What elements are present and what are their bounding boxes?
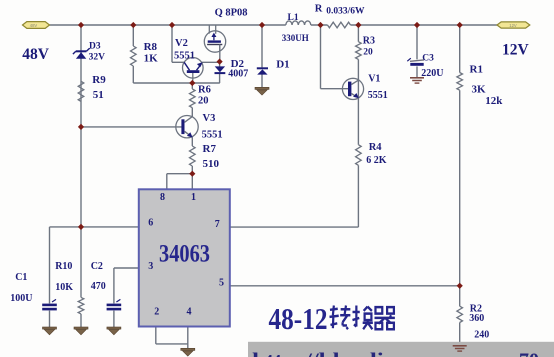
wire gate drop to node (219, 44, 221, 61)
svg-text:R: R (315, 3, 323, 14)
ground below C3 (410, 78, 424, 83)
svg-text:470: 470 (91, 281, 106, 292)
label V1 5551 (368, 90, 388, 101)
wire pin 7 line (230, 226, 359, 228)
label 10K (55, 282, 73, 293)
output terminal 12V (497, 22, 530, 28)
wire D2 connections (219, 62, 221, 83)
title char qi (375, 307, 395, 329)
wire V3 base line (81, 126, 182, 128)
transistor V1 (342, 78, 363, 99)
watermark text (252, 350, 539, 357)
svg-text:12k: 12k (485, 95, 503, 107)
svg-text:D3: D3 (89, 42, 101, 52)
svg-text:3K: 3K (472, 83, 487, 95)
wire V2 collector to rail (172, 25, 184, 62)
svg-text:8: 8 (160, 192, 165, 203)
label R (315, 3, 323, 14)
resistor R10 (78, 297, 84, 314)
wire pin 2 to ground link (156, 327, 188, 344)
wire pin 3 line to C2 (114, 268, 139, 327)
svg-text:510: 510 (203, 158, 220, 170)
wire D1 column (261, 25, 263, 87)
label 12V (502, 42, 530, 59)
label R6 (198, 84, 211, 95)
label D2 (231, 58, 245, 70)
svg-text:C2: C2 (91, 261, 103, 272)
svg-text:220U: 220U (421, 68, 443, 79)
svg-text:C1: C1 (15, 272, 27, 283)
resistor R3 (356, 42, 362, 60)
wire pin 4 to ground (187, 327, 189, 349)
label 0.033/6W (326, 7, 365, 17)
svg-text:R4: R4 (369, 142, 383, 153)
IC text 34063 (159, 241, 210, 268)
label V3 5551 (202, 129, 223, 140)
transistor V2 (183, 58, 204, 83)
svg-text:1: 1 (191, 192, 196, 203)
junction node gate/D2/V2-emitter (217, 59, 223, 65)
pin 7 (215, 219, 220, 230)
resistor R7 (190, 146, 196, 166)
wire R7 to pins 8/1 node (191, 166, 193, 174)
svg-text:5: 5 (219, 277, 224, 288)
svg-text:34063: 34063 (159, 241, 210, 268)
watermark bar (248, 342, 554, 357)
svg-text:R6: R6 (198, 84, 211, 95)
svg-text:12V: 12V (502, 42, 530, 59)
ground below R2 (453, 346, 467, 351)
label V2 5551 (174, 50, 195, 61)
svg-text:240: 240 (474, 330, 489, 341)
title char huan (352, 306, 372, 330)
label Q 8P08 (215, 7, 248, 18)
svg-text:V3: V3 (203, 113, 216, 124)
label 3K (472, 83, 487, 95)
diode D1 (257, 68, 268, 74)
wire top rail sense resistor to 12V terminal (351, 24, 498, 26)
zener diode D3 (73, 48, 90, 59)
pin 1 (191, 192, 196, 203)
label 100U (10, 293, 32, 304)
svg-text:6 2K: 6 2K (366, 155, 387, 166)
wire pin 5 line (230, 285, 460, 287)
label D3 (89, 42, 101, 52)
label R3 20 (363, 48, 373, 58)
label D2 4007 (228, 68, 248, 79)
svg-text:360: 360 (469, 313, 484, 324)
label D1 (276, 59, 289, 71)
pin 4 (187, 307, 192, 318)
svg-text:Q 8P08: Q 8P08 (215, 7, 248, 18)
wire D3/R9 left column (80, 25, 82, 227)
svg-text:R3: R3 (363, 36, 375, 47)
label V2 (175, 38, 188, 49)
svg-text:48V: 48V (22, 46, 50, 63)
ground below C2 (107, 327, 121, 335)
ground below pins 2-4 (181, 348, 195, 356)
capacitor C2 (107, 299, 122, 310)
wire R6 link (191, 83, 193, 117)
title char zhuan (330, 306, 351, 330)
label R8 (144, 41, 158, 53)
svg-text:4: 4 (187, 307, 192, 318)
inductor L1 (286, 21, 311, 25)
label 360 (469, 313, 484, 324)
diode D2 (215, 66, 226, 73)
label R9 (92, 74, 106, 86)
label R7 (203, 143, 217, 155)
input terminal 48V (23, 22, 50, 29)
wire R8 column (132, 25, 134, 83)
label V3 (203, 113, 216, 124)
resistor R2 (457, 306, 463, 322)
svg-text:2: 2 (154, 307, 159, 318)
junction dots on top rail (78, 22, 463, 28)
svg-text:12V: 12V (509, 23, 517, 28)
wire V2 emitter to gate node (202, 61, 220, 63)
wire C1 column (49, 227, 51, 327)
transistor V3 (176, 116, 198, 138)
svg-text:5551: 5551 (174, 50, 195, 61)
svg-text:http://bbs.dianyuan.com: http://bbs.dianyuan.com (252, 350, 514, 357)
label R4 (369, 142, 383, 153)
label 240 (474, 330, 489, 341)
junction node pin5/R1/R2 (457, 283, 463, 289)
wire R3/V1/R4 column (357, 25, 359, 227)
svg-text:V1: V1 (368, 74, 380, 85)
IC U1 34063 body (139, 189, 230, 326)
wire V1 base from sense-left node (321, 25, 349, 89)
junction node V3 base (78, 124, 84, 130)
label 220U (421, 68, 443, 79)
label C2 (91, 261, 103, 272)
pin 3 (148, 261, 153, 272)
svg-text:R1: R1 (470, 64, 483, 76)
label 510 (203, 158, 220, 170)
svg-text:L1: L1 (288, 13, 299, 23)
wire pin 6 line (50, 226, 139, 228)
wire V3 emitter to R7 (191, 137, 193, 146)
svg-text:3: 3 (148, 261, 153, 272)
label R1 (470, 64, 483, 76)
MOSFET Q 8P08 (204, 25, 225, 52)
wire top rail 48V to L1 (50, 24, 286, 26)
svg-text:1K: 1K (144, 53, 159, 65)
svg-text:51: 51 (93, 89, 104, 101)
svg-text:70: 70 (519, 350, 539, 357)
svg-text:R8: R8 (144, 41, 158, 53)
label 51 (93, 89, 104, 101)
label 470 (91, 281, 106, 292)
svg-text:10K: 10K (55, 282, 73, 293)
resistor R4 (356, 145, 362, 166)
capacitor C1 (42, 299, 57, 310)
wire top rail between L1 and sense resistor (311, 24, 328, 26)
label 6.2K (366, 155, 387, 166)
svg-text:5551: 5551 (202, 129, 223, 140)
label R10 (55, 261, 72, 272)
svg-text:32V: 32V (89, 52, 106, 62)
svg-text:330UH: 330UH (282, 33, 309, 43)
pin 5 (219, 277, 224, 288)
wire pins 8 and 1 feed (167, 174, 193, 190)
svg-text:5551: 5551 (368, 90, 388, 101)
resistor R6 (190, 89, 196, 108)
svg-text:C3: C3 (422, 53, 434, 63)
pin 8 (160, 192, 165, 203)
svg-text:6: 6 (148, 217, 153, 228)
label 32V (89, 52, 106, 62)
label V1 (368, 74, 380, 85)
title 48-12 (269, 301, 328, 336)
junction node V2 base/R8/R6 (189, 80, 195, 86)
label 48V (22, 46, 50, 63)
svg-text:7: 7 (215, 219, 220, 230)
label R6 20 (198, 95, 209, 106)
svg-text:R7: R7 (203, 143, 217, 155)
wire R10 column (80, 227, 82, 327)
pin 2 (154, 307, 159, 318)
junction node pins 8-1 (189, 171, 195, 177)
label 1K (144, 53, 159, 65)
svg-text:100U: 100U (10, 293, 32, 304)
svg-text:R10: R10 (55, 261, 72, 272)
ground below D1 (255, 87, 269, 95)
svg-text:R9: R9 (92, 74, 106, 86)
wire node base-of-V2 horizontal (133, 82, 220, 84)
ground below R10 (74, 327, 88, 335)
resistor R8 (131, 46, 137, 66)
wire R1/R2 column (459, 25, 461, 346)
svg-text:20: 20 (198, 95, 209, 106)
ground below C1 (43, 327, 57, 335)
svg-text:0.033/6W: 0.033/6W (326, 7, 365, 17)
label C1 (15, 272, 27, 283)
svg-text:48V: 48V (30, 23, 38, 28)
wire C3 column (416, 25, 418, 78)
label L1 (288, 13, 299, 23)
svg-text:48-12: 48-12 (269, 301, 328, 336)
resistor R 0.033/6W (328, 22, 351, 28)
label R2 (470, 304, 482, 315)
svg-text:D1: D1 (276, 59, 289, 71)
svg-text:V2: V2 (175, 38, 188, 49)
label 330UH (282, 33, 309, 43)
capacitor C3 (407, 58, 424, 66)
label 12k (485, 95, 503, 107)
pin 6 (148, 217, 153, 228)
label C3 (422, 53, 434, 63)
junction node pin6/R10 (78, 224, 84, 230)
svg-text:4007: 4007 (228, 68, 248, 79)
label R3 (363, 36, 375, 47)
resistor R1 (457, 73, 463, 91)
resistor R9 (78, 81, 84, 101)
svg-text:20: 20 (363, 48, 373, 58)
